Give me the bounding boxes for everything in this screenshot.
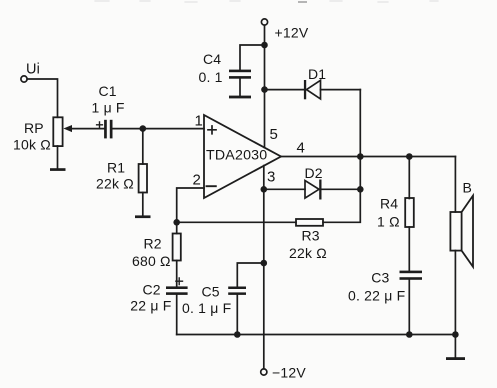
capacitor C5 0.1uF — [182, 263, 264, 335]
junction node C1/R1 — [140, 125, 147, 132]
capacitor C4 0.1 — [199, 45, 265, 96]
junction pin3 line/C5 — [261, 260, 268, 267]
wire output (pin 4) to speaker — [281, 156, 455, 158]
svg-text:D1: D1 — [308, 66, 326, 82]
ground (C4) — [229, 96, 251, 99]
capacitor C1 1uF — [92, 83, 125, 138]
wire +12V to pin 5 — [264, 25, 266, 147]
ground (R1) — [135, 215, 151, 218]
svg-text:R3: R3 — [302, 228, 320, 244]
wire feedback node to R3 — [177, 221, 296, 223]
junction output/D-branch — [357, 153, 364, 160]
svg-text:R1: R1 — [107, 160, 125, 176]
wire Ui to RP top — [27, 79, 57, 117]
-12V supply terminal — [261, 365, 307, 381]
svg-text:C1: C1 — [99, 83, 117, 99]
junction output/R4 — [406, 153, 413, 160]
svg-text:D2: D2 — [305, 165, 323, 181]
op-amp U1 TDA2030 — [204, 115, 281, 198]
svg-text:22k Ω: 22k Ω — [96, 176, 134, 192]
capacitor C3 0.22uF — [348, 270, 422, 335]
junction pin3/D2 — [261, 186, 268, 193]
junction rail/speaker — [452, 331, 459, 338]
svg-text:+12V: +12V — [275, 24, 309, 40]
svg-text:C4: C4 — [203, 51, 221, 67]
svg-text:C2: C2 — [143, 282, 161, 298]
resistor R1 22k — [96, 129, 147, 216]
svg-text:4: 4 — [297, 139, 306, 156]
svg-text:680 Ω: 680 Ω — [132, 253, 171, 269]
svg-text:0. 1 μ F: 0. 1 μ F — [182, 300, 231, 316]
terminal Ui — [21, 62, 40, 83]
junction rail/C3 — [406, 331, 413, 338]
svg-text:RP: RP — [24, 120, 44, 136]
scan artifact dashes top edge — [95, 1, 438, 2]
wire C1 to op-amp pin 1 — [113, 128, 205, 130]
diode D2 — [264, 165, 361, 200]
junction rail/C5 — [234, 331, 241, 338]
svg-text:10k Ω: 10k Ω — [13, 136, 51, 152]
svg-text:1 μ F: 1 μ F — [92, 99, 125, 115]
diode D1 — [265, 66, 361, 99]
capacitor C2 22uF (electrolytic) — [130, 278, 187, 335]
wire pin 2 to feedback node — [177, 188, 204, 222]
svg-text:5: 5 — [270, 126, 279, 143]
resistor R3 22k — [289, 219, 327, 261]
junction node pin2/R2/R3 — [173, 219, 180, 226]
svg-text:1: 1 — [195, 112, 204, 129]
svg-text:2: 2 — [193, 172, 202, 189]
svg-text:C5: C5 — [202, 284, 220, 300]
svg-text:R4: R4 — [380, 196, 398, 212]
svg-text:−12V: −12V — [272, 365, 306, 381]
svg-text:TDA2030: TDA2030 — [206, 147, 267, 163]
potentiometer RP 10k — [13, 117, 104, 152]
ground (RP) — [50, 146, 66, 171]
svg-text:0. 1: 0. 1 — [199, 69, 223, 85]
svg-text:0. 22 μ F: 0. 22 μ F — [348, 287, 405, 303]
svg-text:B: B — [463, 180, 473, 196]
speaker B — [450, 157, 473, 335]
resistor R4 1 ohm — [377, 157, 414, 271]
svg-text:C3: C3 — [371, 270, 389, 286]
ground (speaker) — [446, 335, 465, 361]
junction +12V/C4 — [261, 42, 268, 49]
resistor R2 680 — [132, 222, 181, 285]
junction +12V/D1 — [261, 86, 268, 93]
svg-text:1 Ω: 1 Ω — [377, 214, 400, 230]
ground rail wire (bottom) — [177, 334, 456, 336]
junction D2/output vertical — [357, 186, 364, 193]
+12V supply terminal — [261, 19, 308, 40]
svg-text:22k Ω: 22k Ω — [289, 245, 327, 261]
svg-text:R2: R2 — [144, 236, 162, 252]
wire pin 3 to -12V — [263, 166, 265, 369]
svg-text:Ui: Ui — [26, 62, 40, 78]
svg-text:3: 3 — [267, 169, 276, 186]
svg-text:22 μ F: 22 μ F — [130, 298, 171, 314]
wire R3 to output vertical — [323, 90, 360, 223]
